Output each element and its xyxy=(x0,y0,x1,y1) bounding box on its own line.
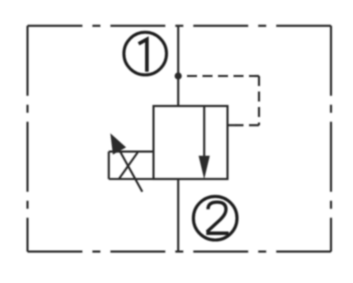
enclosure boundary left edge (dash-dot) xyxy=(26,26,28,252)
enclosure boundary right edge (dash-dot) xyxy=(330,26,332,252)
port 2 label digit base bar xyxy=(206,232,228,236)
valve body envelope square xyxy=(154,106,228,179)
flow path arrow shaft xyxy=(203,106,205,160)
adjustment arrow shaft xyxy=(114,140,143,192)
pilot line horizontal segment (dashed) xyxy=(184,75,260,77)
flow path arrowhead xyxy=(199,156,210,179)
spring box left edge xyxy=(108,152,110,179)
port 2 label digit xyxy=(207,202,226,232)
enclosure boundary bottom edge (dash-dot) xyxy=(28,251,332,253)
spring diagonal xyxy=(119,152,138,179)
enclosure boundary top edge (dash-dot) xyxy=(28,25,332,27)
wire: port 1 line from top boundary to valve body xyxy=(177,26,179,106)
spring box bottom edge xyxy=(109,178,154,180)
pilot line lower horizontal segment (dashed) xyxy=(236,124,259,126)
port 2 label circle xyxy=(193,196,237,240)
pilot line vertical segment (dashed) xyxy=(258,76,260,125)
pilot stub into valve body (solid) xyxy=(228,124,237,126)
port 1 label circle xyxy=(124,32,167,75)
port 1 label digit xyxy=(139,39,147,72)
spring box top edge xyxy=(109,151,154,153)
node: pilot tap junction dot xyxy=(175,72,182,79)
wire: port 2 line from valve body to bottom boundary xyxy=(177,179,179,252)
adjustment arrowhead xyxy=(110,133,126,154)
